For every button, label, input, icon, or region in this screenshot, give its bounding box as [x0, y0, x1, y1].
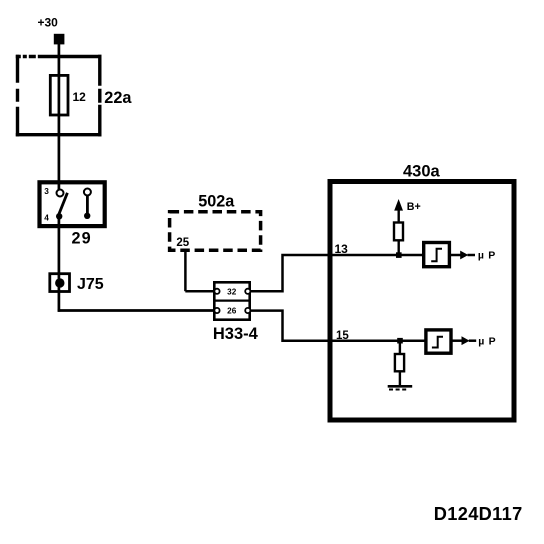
- wire: horizontal from J75 corner to H33-4 pin 26: [58, 309, 215, 312]
- pin 32 left terminal: [214, 289, 219, 294]
- solenoid valve box J75: [50, 274, 70, 292]
- svg-text:µ: µ: [478, 335, 484, 347]
- pin 26 left terminal: [214, 308, 219, 313]
- J75 valve dot: [55, 278, 64, 287]
- control unit box 430a: [330, 182, 514, 421]
- fuse S12 symbol: [50, 75, 68, 115]
- svg-text:430a: 430a: [403, 162, 441, 180]
- step symbol lower: [432, 337, 443, 348]
- terminal +30 (filled square): [54, 34, 65, 45]
- svg-text:12: 12: [73, 90, 87, 104]
- arrowhead lower: [462, 336, 470, 345]
- ground symbol: [388, 385, 413, 388]
- svg-text:26: 26: [227, 307, 237, 316]
- svg-text:J75: J75: [77, 276, 104, 293]
- relay contact circle (pin 3): [57, 190, 64, 197]
- fuse holder box 22a (interrupted outline): [16, 55, 102, 137]
- step symbol upper: [431, 249, 442, 261]
- wire: arrow tail lower: [469, 339, 476, 342]
- svg-text:µ: µ: [478, 250, 484, 262]
- arrowhead upper: [460, 251, 468, 260]
- wire: node to resistor lower: [399, 341, 401, 355]
- wire: resistor to ground: [399, 371, 401, 387]
- relay second contact dot: [84, 213, 90, 219]
- B+ arrow: [394, 199, 403, 211]
- svg-text:3: 3: [44, 186, 49, 196]
- svg-text:15: 15: [336, 330, 349, 342]
- wire: stage output lower: [453, 339, 463, 342]
- relay box 29: [40, 182, 105, 226]
- svg-text:29: 29: [72, 230, 92, 248]
- wire: B+ arrow stem: [398, 210, 400, 223]
- svg-text:B+: B+: [407, 201, 421, 213]
- threshold stage box lower: [426, 330, 451, 353]
- resistor lower: [395, 354, 404, 371]
- connector box 502a (dashed): [170, 212, 261, 250]
- wire: H33-4 pin 26 to 430a pin 15: [249, 311, 426, 341]
- junction dot lower: [397, 338, 403, 344]
- svg-text:32: 32: [227, 287, 237, 296]
- pin 26 right terminal: [245, 308, 250, 313]
- connector H33-4 box: [214, 282, 249, 319]
- svg-text:P: P: [488, 250, 495, 262]
- svg-text:P: P: [489, 335, 496, 347]
- svg-text:+30: +30: [38, 16, 59, 30]
- wire: H33-4 pin 32 to 430a pin 13: [249, 255, 424, 291]
- svg-text:22a: 22a: [104, 89, 132, 107]
- svg-text:D124D117: D124D117: [434, 504, 523, 524]
- wire: resistor to node 13: [398, 240, 400, 256]
- pin 32 right terminal: [245, 289, 250, 294]
- wire: relay output down through J75 to corner: [58, 214, 61, 312]
- svg-text:H33-4: H33-4: [213, 325, 259, 343]
- wire: into H33-4 pin 32: [185, 290, 215, 293]
- wire: drop from 502a pin 25: [184, 250, 187, 291]
- relay switch blade: [58, 193, 68, 217]
- wire: +30 terminal down through fuse to relay contact: [58, 44, 61, 190]
- resistor upper: [394, 223, 403, 241]
- svg-text:4: 4: [44, 213, 49, 223]
- wire: stage output upper: [451, 254, 462, 257]
- connector H33-4 divider: [213, 300, 251, 302]
- wire: arrow tail upper: [468, 254, 476, 257]
- svg-text:502a: 502a: [198, 193, 235, 211]
- svg-text:13: 13: [335, 242, 349, 256]
- relay second contact circle: [84, 189, 91, 196]
- relay blade pivot dot: [56, 213, 62, 219]
- svg-text:25: 25: [176, 237, 189, 249]
- junction dot upper: [396, 252, 402, 258]
- threshold stage box upper: [424, 243, 450, 267]
- relay second contact bar: [86, 196, 89, 214]
